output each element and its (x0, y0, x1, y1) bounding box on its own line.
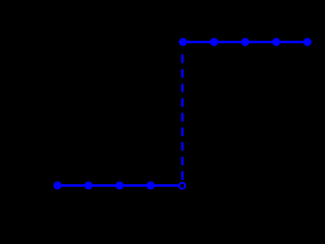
node (-3,0) (84, 181, 92, 189)
node (2,1) (241, 38, 249, 46)
wire dashed step x=0 (181, 55, 183, 181)
node (4,1) (303, 38, 311, 46)
node (1,1) (210, 38, 218, 46)
wire upper segment y=1 (183, 41, 307, 43)
node open circle (0,0) (179, 183, 185, 189)
wire lower segment y=0 (58, 184, 179, 186)
node (-4,0) (53, 181, 61, 189)
node (-1,0) (147, 181, 155, 189)
node (0,1) (179, 38, 187, 46)
node (3,1) (272, 38, 280, 46)
node (-2,0) (116, 181, 124, 189)
